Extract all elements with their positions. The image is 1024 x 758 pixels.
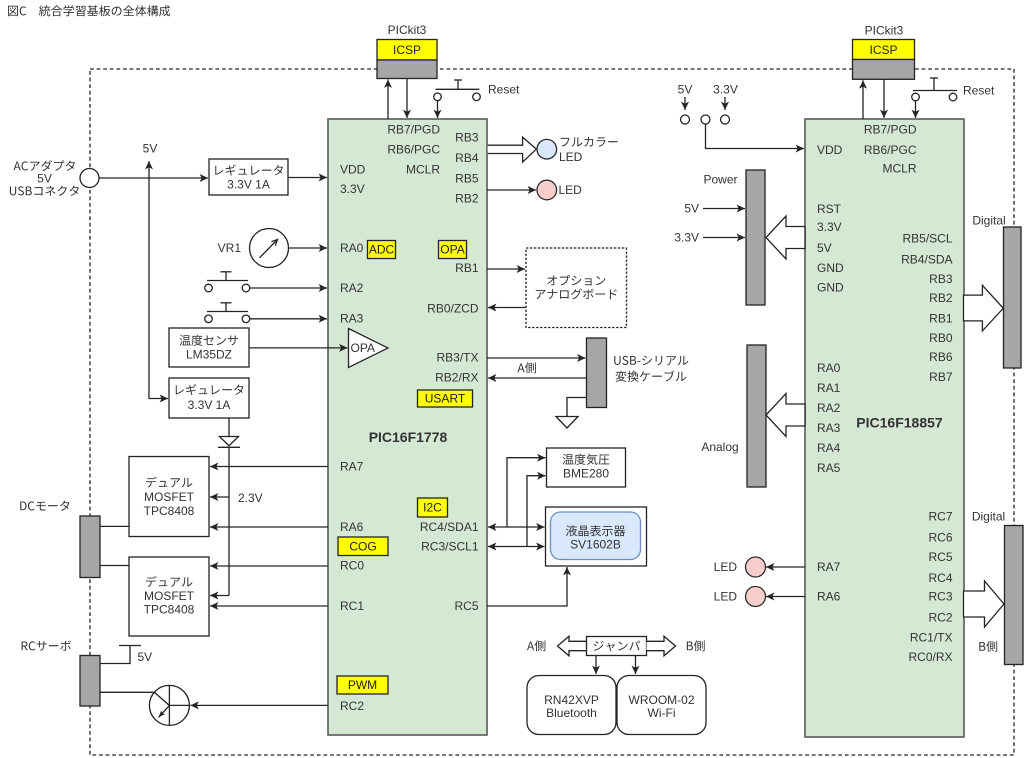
wire 5V rail down to regulator2 [149, 178, 168, 399]
LED D4 [714, 560, 738, 574]
LED D3 [537, 180, 557, 200]
svg-text:OPA: OPA [351, 341, 375, 355]
op-amp OPA input triangle [349, 329, 389, 368]
pushbutton Reset right [912, 78, 957, 101]
svg-text:RC3/SCL1: RC3/SCL1 [421, 540, 479, 554]
wire ICSP to RB6/PGC [406, 79, 408, 119]
label RCサーボ [22, 640, 71, 650]
svg-text:RB3: RB3 [455, 131, 479, 145]
svg-text:RA3: RA3 [340, 312, 364, 326]
wire 2.3V branch to MOSFET1 [210, 496, 229, 498]
wire Reset to MCLR right [915, 101, 917, 118]
svg-text:Reset: Reset [963, 84, 995, 98]
svg-text:ADC: ADC [369, 243, 395, 257]
svg-text:5V: 5V [817, 241, 832, 255]
svg-text:3.3V 1A: 3.3V 1A [227, 178, 270, 192]
regulator U3 レギュレータ 3.3V 1A [209, 159, 288, 195]
wire servo conn to motor [100, 691, 154, 693]
driver デュアルMOSFET TPC8408 #1 [129, 457, 209, 537]
svg-text:SV1602B: SV1602B [570, 538, 621, 552]
svg-text:WROOM-02: WROOM-02 [629, 693, 695, 707]
svg-text:3.3V 1A: 3.3V 1A [188, 398, 231, 412]
label DCモータ [20, 501, 69, 511]
svg-text:RB3/TX: RB3/TX [436, 351, 478, 365]
driver デュアルMOSFET TPC8408 #2 [129, 557, 209, 636]
wire 5V arrow [684, 97, 686, 110]
label 3.3V testpoint [713, 83, 738, 97]
label B側 right [979, 641, 997, 652]
module RN42XVP Bluetooth [527, 676, 616, 735]
wire 5V to power bus [684, 202, 699, 216]
label B側 jumper [687, 640, 705, 651]
wire RB3/TX to USB serial [487, 357, 586, 359]
IC U1 PIC16F1778 [328, 119, 487, 735]
wire RC1 to MOSFET2 [210, 605, 328, 607]
svg-text:RST: RST [817, 202, 842, 216]
svg-text:RA2: RA2 [817, 401, 841, 415]
svg-text:LM35DZ: LM35DZ [186, 348, 232, 362]
wire motor conn to MOSFET2 [100, 565, 129, 567]
wire RA6 to LED D5 [766, 596, 805, 598]
svg-text:VDD: VDD [340, 163, 366, 177]
connector Digital bus bottom [1005, 526, 1024, 665]
svg-text:PICkit3: PICkit3 [865, 24, 904, 38]
svg-text:RC0: RC0 [340, 559, 364, 573]
svg-text:RB3: RB3 [929, 272, 953, 286]
svg-text:RA5: RA5 [817, 461, 841, 475]
svg-text:RB6: RB6 [929, 350, 953, 364]
svg-text:RC4: RC4 [928, 571, 952, 585]
svg-text:MCLR: MCLR [882, 162, 916, 176]
svg-text:3.3V: 3.3V [817, 220, 842, 234]
label Digital bottom [972, 510, 1005, 524]
sensor 温度気圧 BME280 [547, 448, 626, 487]
svg-text:COG: COG [349, 540, 376, 554]
bus arrow jumper to B [647, 636, 676, 656]
svg-text:PIC16F18857: PIC16F18857 [856, 415, 943, 431]
wire 2.3V rail into MOSFET2 [210, 595, 229, 597]
wire regulator2 down [228, 418, 230, 436]
svg-text:RB2: RB2 [929, 291, 953, 305]
svg-text:RB0/ZCD: RB0/ZCD [427, 302, 479, 316]
LED D5 [714, 590, 738, 604]
svg-text:5V: 5V [37, 172, 52, 186]
svg-text:PICkit3: PICkit3 [388, 23, 427, 37]
wire RB5 to LED [487, 189, 536, 191]
svg-text:RA1: RA1 [817, 381, 841, 395]
svg-text:RC6: RC6 [928, 531, 952, 545]
label A側 [517, 362, 535, 373]
wire VR1 to RA0 [289, 247, 328, 249]
label Digital top [972, 214, 1005, 228]
svg-text:VR1: VR1 [218, 241, 242, 255]
svg-text:RC0/RX: RC0/RX [908, 650, 952, 664]
svg-text:RA6: RA6 [817, 590, 841, 604]
svg-text:RC1: RC1 [340, 599, 364, 613]
svg-text:Digital: Digital [972, 510, 1005, 524]
svg-text:RC7: RC7 [928, 510, 952, 524]
bus arrow U2 to digital bottom [964, 581, 1005, 627]
wire RC5 to LCD [487, 567, 567, 606]
wire RC2 to motor [190, 704, 328, 706]
wire LM35DZ to OPA [249, 347, 348, 349]
svg-text:3.3V: 3.3V [674, 231, 699, 245]
svg-text:5V: 5V [684, 202, 699, 216]
label 5V testpoint [678, 83, 693, 97]
svg-text:ICSP: ICSP [869, 43, 897, 57]
svg-text:RB6/PGC: RB6/PGC [864, 143, 917, 157]
svg-text:PWM: PWM [348, 678, 377, 692]
power 5V servo [100, 646, 141, 664]
peripheral tag OPA tag [439, 241, 467, 259]
sensor 温度センサ LM35DZ [169, 328, 249, 367]
svg-text:TPC8408: TPC8408 [144, 504, 195, 518]
connector ICSP (PICkit3) left [377, 23, 437, 78]
bus arrow U2 to digital top [964, 285, 1004, 331]
wire RB1 to option board [487, 268, 525, 270]
svg-text:3.3V: 3.3V [713, 83, 738, 97]
svg-text:RB5: RB5 [455, 172, 479, 186]
svg-text:RC2: RC2 [340, 699, 364, 713]
svg-text:RC3: RC3 [928, 590, 952, 604]
svg-text:5V: 5V [138, 650, 153, 664]
svg-text:ICSP: ICSP [393, 43, 421, 57]
svg-text:MOSFET: MOSFET [144, 589, 195, 603]
svg-text:RB2: RB2 [455, 192, 479, 206]
wire SW1 to RA2 [250, 287, 327, 289]
svg-text:LED: LED [559, 150, 583, 164]
motor M1 (servo) [149, 685, 189, 725]
svg-text:RC5: RC5 [928, 550, 952, 564]
svg-text:GND: GND [817, 261, 844, 275]
jumper ジャンパ [587, 637, 647, 656]
connector Power bus [746, 170, 765, 305]
svg-text:RC1/TX: RC1/TX [910, 631, 953, 645]
node 5V rail [148, 161, 150, 178]
wire RC0 to MOSFET2 [210, 565, 328, 567]
svg-text:Bluetooth: Bluetooth [546, 706, 597, 720]
wire AC to regulator [99, 177, 208, 179]
wire RC4/SDA1 bus [488, 526, 545, 528]
svg-text:Reset: Reset [488, 83, 520, 97]
wire ICSP to RB7/PGD right [862, 80, 864, 119]
svg-text:RA2: RA2 [340, 281, 364, 295]
svg-text:Analog: Analog [701, 440, 738, 454]
label Analog [701, 440, 738, 454]
svg-text:MCLR: MCLR [406, 163, 440, 177]
svg-text:RA0: RA0 [817, 361, 841, 375]
svg-text:RA7: RA7 [817, 560, 841, 574]
wire RA6 to MOSFET1 [210, 526, 328, 528]
svg-text:RB2/RX: RB2/RX [435, 371, 478, 385]
peripheral tag USART [418, 390, 473, 407]
svg-text:RC5: RC5 [454, 599, 478, 613]
svg-text:Power: Power [703, 173, 737, 187]
svg-text:GND: GND [817, 281, 844, 295]
regulator U4 レギュレータ 3.3V 1A [169, 378, 249, 418]
svg-text:TPC8408: TPC8408 [144, 603, 195, 617]
bus arrow jumper to A [558, 636, 587, 656]
bus arrow analog to U2 [766, 394, 805, 437]
wire USB serial to RB2/RX [488, 377, 587, 379]
svg-text:RN42XVP: RN42XVP [544, 693, 599, 707]
wire option board to RB0/ZCD [488, 307, 526, 309]
diode D1 [218, 437, 240, 448]
wire regulator1 to VDD [288, 177, 327, 179]
wire RA7 to LED D4 [766, 566, 805, 568]
svg-text:RB4/SDA: RB4/SDA [901, 253, 952, 267]
wire testpoint to VDD U2 [706, 124, 805, 149]
svg-text:VDD: VDD [817, 143, 843, 157]
peripheral tag ADC [368, 241, 396, 259]
svg-text:LED: LED [714, 590, 738, 604]
peripheral tag PWM [337, 676, 388, 694]
svg-text:RA3: RA3 [817, 421, 841, 435]
connector DCモータ [80, 516, 100, 578]
pushbutton Reset left [434, 80, 481, 101]
bus arrow RB3/RB4 to full color LED [488, 137, 537, 162]
wire Reset to MCLR [437, 101, 439, 118]
svg-text:RA4: RA4 [817, 441, 841, 455]
LED D2 full color [537, 139, 557, 159]
svg-text:RB7/PGD: RB7/PGD [387, 123, 440, 137]
connector Digital bus top [1004, 227, 1022, 368]
wire jumper to RN42XVP [595, 656, 597, 675]
svg-text:OPA: OPA [440, 243, 464, 257]
svg-text:BME280: BME280 [563, 467, 609, 481]
label A側 jumper [527, 640, 545, 651]
connector ICSP (PICkit3) right [853, 24, 915, 80]
module オプションアナログボード (dashed) [526, 248, 627, 328]
svg-text:Digital: Digital [972, 214, 1005, 228]
svg-text:RC4/SDA1: RC4/SDA1 [420, 520, 479, 534]
svg-text:RB1: RB1 [929, 312, 953, 326]
svg-text:RB4: RB4 [455, 151, 479, 165]
wire motor conn to MOSFET1 [100, 525, 129, 527]
title 図C 統合学習基板の全体構成 [8, 5, 170, 16]
svg-text:RB6/PGC: RB6/PGC [387, 143, 440, 157]
svg-text:PIC16F1778: PIC16F1778 [369, 429, 448, 445]
pushbutton SW2 [205, 303, 250, 323]
IC U2 PIC16F18857 [805, 119, 964, 737]
svg-text:Wi-Fi: Wi-Fi [648, 706, 676, 720]
peripheral tag COG [338, 537, 388, 556]
wire 2.3V rail down [228, 448, 230, 596]
connector USB-シリアル変換ケーブル [587, 338, 607, 408]
bus arrow power to U2 [766, 216, 805, 259]
svg-text:RB1: RB1 [455, 261, 479, 275]
ground [556, 398, 586, 429]
svg-text:5V: 5V [143, 142, 158, 156]
svg-text:RA0: RA0 [340, 241, 364, 255]
svg-text:5V: 5V [678, 83, 693, 97]
connector Analog bus [747, 345, 766, 487]
svg-text:LED: LED [559, 183, 583, 197]
svg-text:I2C: I2C [423, 501, 442, 515]
potentiometer VR1 [218, 241, 242, 255]
wire 3.3V arrow [724, 97, 726, 110]
svg-text:USART: USART [425, 392, 466, 406]
wire ICSP to RB7/PGD [387, 80, 389, 120]
pushbutton SW1 [205, 272, 250, 292]
connector ACアダプタ/USB [80, 169, 99, 188]
svg-text:RA6: RA6 [340, 520, 364, 534]
connector RCサーボ [80, 656, 100, 707]
wire RC3/SCL1 bus [488, 546, 545, 548]
module WROOM-02 Wi-Fi [617, 676, 706, 735]
svg-text:RB5/SCL: RB5/SCL [902, 232, 952, 246]
wire jumper to WROOM [635, 656, 637, 675]
svg-text:2.3V: 2.3V [238, 491, 263, 505]
label Power [703, 173, 737, 187]
wire SW2 to RA3 [250, 318, 327, 320]
wire 3.3V to power bus [674, 231, 699, 245]
testpoint pins [681, 115, 730, 124]
wire ICSP to RB6/PGC right [883, 79, 885, 118]
svg-text:RB7: RB7 [929, 370, 953, 384]
svg-text:3.3V: 3.3V [340, 182, 365, 196]
wire SCL branch to BME280 [527, 476, 546, 547]
wire SDA branch to BME280 [507, 458, 546, 527]
svg-text:RB7/PGD: RB7/PGD [864, 123, 917, 137]
display 液晶表示器 SV1602B [546, 507, 647, 566]
svg-text:MOSFET: MOSFET [144, 490, 195, 504]
svg-text:LED: LED [714, 560, 738, 574]
svg-text:RB0: RB0 [929, 331, 953, 345]
peripheral tag I2C [418, 498, 448, 517]
svg-text:RA7: RA7 [340, 460, 364, 474]
wire RA7 to MOSFET1 [210, 466, 328, 468]
svg-text:RC2: RC2 [928, 611, 952, 625]
